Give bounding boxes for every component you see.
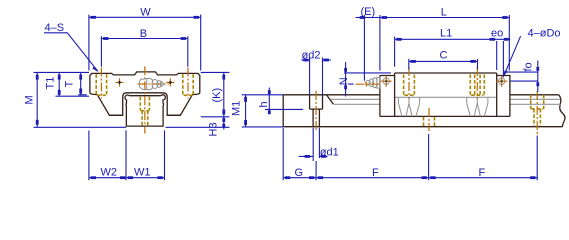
centerline tapped hole left: [408, 67, 410, 99]
rail bolt hole 3 (hidden): [531, 95, 544, 127]
top tap mark left: [115, 78, 123, 86]
svg-text:M: M: [24, 95, 36, 104]
dim L: [380, 7, 509, 71]
svg-text:ød1: ød1: [320, 147, 339, 159]
nipple centerline horizontal: [356, 83, 381, 85]
svg-text:W: W: [140, 7, 151, 19]
svg-text:eo: eo: [491, 28, 503, 40]
svg-text:N: N: [338, 77, 350, 85]
dim C: [409, 49, 478, 69]
ball track right (gray): [467, 97, 488, 116]
dim M: [24, 72, 230, 127]
rail bolt hole 1 (section, solid): [310, 95, 323, 127]
rail section break diagonal: [327, 95, 334, 104]
svg-text:ød2: ød2: [302, 49, 321, 61]
svg-text:F: F: [372, 167, 379, 179]
svg-text:(E): (E): [361, 6, 376, 18]
centerline grease nipple horizontal: [138, 83, 169, 85]
dim (K): [201, 72, 230, 116]
dim d1: [299, 128, 339, 161]
label 4-S with leader: [44, 22, 99, 72]
svg-text:4–øDo: 4–øDo: [528, 28, 561, 40]
end plate right: [497, 76, 510, 117]
centerline screw left: [100, 68, 102, 99]
centerline hole 1: [315, 91, 317, 131]
block body: [395, 73, 497, 116]
label 4-oDo with leader: [503, 28, 560, 78]
rail side outline: [283, 95, 562, 127]
rail bolt hole 2 under block (hidden): [424, 117, 435, 126]
centerline screw right: [187, 68, 189, 99]
svg-text:W1: W1: [134, 167, 151, 179]
dim M1: [230, 95, 283, 127]
block wing bottom edges: [109, 114, 180, 116]
block bottom line: [380, 115, 510, 117]
svg-text:H3: H3: [208, 122, 220, 136]
svg-text:W2: W2: [101, 167, 118, 179]
grease port right: [496, 76, 507, 87]
svg-text:C: C: [440, 49, 448, 61]
top tap mark right: [166, 78, 174, 86]
rail groove lines right of block: [510, 99, 561, 104]
svg-text:B: B: [140, 28, 147, 40]
screw hole S right (hidden): [183, 74, 193, 95]
svg-text:(K): (K): [211, 88, 223, 103]
dim T: [63, 72, 87, 94]
dim W: [89, 7, 201, 71]
svg-text:M1: M1: [230, 101, 242, 116]
dim N: [338, 62, 391, 97]
dim H3: [208, 117, 226, 137]
svg-text:fo: fo: [523, 62, 535, 71]
screw hole S left (hidden): [96, 74, 106, 95]
grease port left: [381, 76, 392, 87]
LM block outline: [90, 72, 200, 115]
dim h: [258, 88, 303, 115]
svg-text:L1: L1: [440, 28, 452, 40]
centerline tapped hole right: [476, 67, 478, 99]
block tapped hole right (hidden): [470, 75, 484, 96]
dim d2: [301, 49, 331, 94]
svg-text:T1: T1: [45, 77, 57, 90]
grease nipple (front): [139, 78, 163, 89]
dim B: [101, 28, 187, 67]
dims W2 W1: [89, 130, 165, 180]
svg-text:4–S: 4–S: [45, 22, 65, 34]
dim fo: [505, 61, 539, 93]
grease nipple (side): [366, 77, 380, 88]
dims G F F: [283, 128, 537, 180]
dim L1: [395, 28, 497, 67]
rail groove lines left of block: [330, 99, 380, 104]
rail bolt counterbore (hidden): [140, 97, 149, 126]
svg-text:h: h: [258, 101, 270, 107]
svg-text:T: T: [63, 81, 75, 88]
end plate left: [380, 76, 395, 117]
dim eo: [491, 28, 510, 78]
svg-text:L: L: [441, 7, 447, 19]
ball track left (gray): [398, 97, 419, 116]
rail end break line: [559, 95, 565, 127]
centerline hole 2: [428, 108, 430, 131]
dim (E): [355, 6, 380, 81]
svg-text:F: F: [479, 167, 486, 179]
svg-text:G: G: [295, 167, 304, 179]
block tapped hole left (hidden): [404, 75, 415, 96]
rail cross-section: [125, 95, 165, 126]
centerline main vertical: [144, 66, 146, 133]
nipple center tick: [365, 82, 367, 87]
centerline hole 3: [536, 91, 538, 135]
dim T1: [45, 72, 90, 96]
rail top hidden under block (gray): [395, 96, 497, 98]
